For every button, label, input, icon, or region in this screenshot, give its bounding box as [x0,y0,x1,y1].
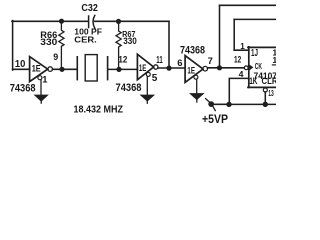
wire top right segment (C32 to node D corner) [95,20,169,22]
part number 74368 (U2) [116,82,142,94]
svg-text:12: 12 [234,54,241,64]
value label 18.432 MHZ [74,105,124,116]
wire inverter U3 output to flip-flop CK [208,67,245,69]
resistor R67 [116,21,121,69]
label 330 (R66) [40,37,57,48]
wire crystal to inverter U2 input [108,68,137,70]
pin 5 label U2 enable [152,73,158,84]
wire pin 13 CLR to rail [264,92,266,105]
svg-text:CER.: CER. [74,34,97,44]
svg-text:CK: CK [255,62,262,71]
pin 1 label FF J input [240,42,245,51]
wire top feedback rail to right edge [220,4,277,6]
inverter U2 (74368 1E pins 12-11) [137,54,158,80]
svg-text:330: 330 [40,37,57,48]
junction U2 input / R67 bottom [116,67,121,72]
flip-flop CK edge wedge [249,64,253,70]
svg-text:1: 1 [240,42,245,51]
label CER. [74,34,97,44]
junction U3 output / FF feedback [217,65,222,70]
capacitor C32 [89,15,95,28]
gate name 1E (U2) [139,62,147,73]
junction +5VP rail / pin 13 [263,102,268,107]
power label +5VP [202,114,228,126]
label 1K inside FF [249,76,258,86]
svg-text:1K: 1K [249,76,258,86]
svg-text:1E: 1E [139,62,147,73]
pin 11 label U2 [156,55,163,66]
pin 7 label U3 [208,55,213,66]
part number 74368 (U3) [180,45,205,57]
pin 9 label U1 [53,52,58,62]
flip-flop CK bubble [244,66,248,70]
gate name 1E (U1) [32,62,41,73]
svg-text:+5VP: +5VP [202,114,228,126]
svg-text:1: 1 [272,55,276,65]
pin 12 label FF clock [234,54,241,64]
wire feedback vertical at x=169 [168,21,170,68]
label R66 [40,30,57,40]
svg-text:C32: C32 [81,3,98,14]
wire inverter U1 output to crystal [53,68,77,70]
ground for U1 pin 1 [35,80,47,103]
label 1J inside FF [251,48,258,59]
wire second feedback vertical [233,19,235,50]
svg-text:1J: 1J [251,48,258,59]
svg-text:5: 5 [152,73,158,84]
label R67 [122,29,136,39]
svg-text:1: 1 [42,73,47,84]
inverter U3 (74368 1E pins 6-7) [185,56,207,83]
label CLR inside FF [262,76,279,86]
wire second feedback from right edge [234,18,276,20]
resistor R66 [59,21,64,70]
label 1Q-bar at right edge [272,55,277,65]
svg-text:13: 13 [268,88,274,98]
inverter U2 enable bubble pin 5 [146,72,150,76]
svg-text:7: 7 [208,55,213,66]
flip-flop U4 74107 box [248,47,276,88]
inverter U1 (74368 1E pins 10-9) [30,57,53,82]
svg-text:1E: 1E [32,62,41,73]
part number 74107 inside FF [254,71,278,81]
part number 74368 (U1) [10,83,36,95]
svg-text:4: 4 [239,69,244,79]
label 100 PF [74,27,102,37]
pin 12 label U2 [118,54,127,64]
gate name 1E (U3) [187,64,195,75]
svg-text:74368: 74368 [116,82,142,94]
junction U1 output / R66 bottom [59,67,64,72]
wire left vertical (node A) [12,21,14,70]
+5VP power arrow [206,99,229,111]
wire top left segment (node A to C32) [12,20,88,22]
wire pin 1 J input into flip-flop [234,49,249,51]
label C32 [81,3,98,14]
label CK inside FF [255,62,262,71]
svg-text:11: 11 [156,55,163,66]
wire pin 4 K input to +5VP rail [229,78,249,104]
wire feedback vertical to top rail [219,5,221,68]
svg-text:CLR: CLR [262,76,277,86]
svg-text:74368: 74368 [10,83,36,95]
wire +5VP rail [213,103,276,105]
pin 10 label U1 [15,59,26,70]
wire inverter U2 output to inverter U3 input [158,67,185,69]
pin 1 label U1 enable [42,73,47,84]
ground for U3 enable [191,79,203,102]
inverter U1 enable bubble pin 1 [38,76,42,80]
svg-text:18.432 MHZ: 18.432 MHZ [74,105,124,116]
junction node D / R67 top [116,19,121,24]
junction U2 output / top feedback [166,66,171,71]
svg-text:1E: 1E [187,64,195,75]
crystal Y1 18.432 MHz [77,55,107,81]
label 1Q at right edge [272,47,277,57]
svg-text:6: 6 [177,57,182,68]
flip-flop CLR bubble pin 13 [263,88,267,92]
wire inverter U1 input [13,68,30,70]
pin 6 label U3 [177,57,182,68]
inverter U3 enable bubble [194,75,198,79]
label 330 (R67) [123,36,137,46]
ground for U2 pin 5 [141,77,153,104]
svg-text:10: 10 [15,59,26,70]
svg-text:12: 12 [118,54,127,64]
junction +5VP rail / K pull-up [226,102,231,107]
pin 4 label FF K input [239,69,244,79]
svg-text:9: 9 [53,52,58,62]
pin 13 label FF CLR [268,88,274,98]
svg-text:330: 330 [123,36,137,46]
svg-text:74368: 74368 [180,45,205,57]
junction node A / R66 top [59,19,64,24]
